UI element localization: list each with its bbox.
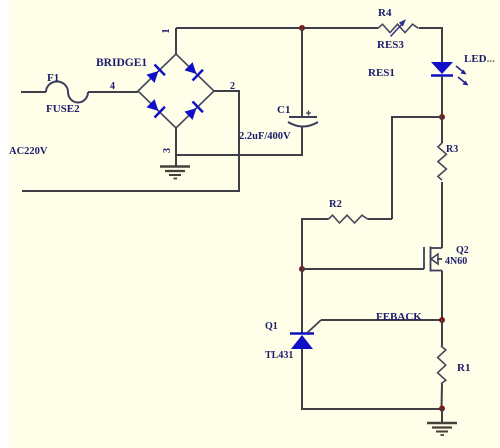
- wire AC neutral bottom rail: [22, 91, 239, 191]
- svg-text:R4: R4: [378, 7, 392, 19]
- resistor R1: [438, 346, 446, 384]
- node junction dot top rail / C1: [299, 25, 305, 31]
- bridge diode top-right: [183, 61, 203, 81]
- Q1 reference lead: [307, 320, 321, 333]
- svg-text:TL431: TL431: [265, 350, 293, 361]
- svg-text:RES1: RES1: [368, 67, 395, 79]
- wire fuse to bridge pin 4: [88, 91, 138, 93]
- svg-text:R1: R1: [457, 362, 470, 374]
- wire Q2 source down to feedback node: [441, 271, 443, 321]
- ground under bridge: [160, 167, 190, 179]
- svg-text:AC220V: AC220V: [9, 146, 48, 157]
- svg-text:1: 1: [161, 29, 172, 34]
- wire Q1 anode to bottom rail: [302, 349, 442, 409]
- capacitor C1: [288, 111, 318, 127]
- wire R2 right lead: [368, 218, 393, 220]
- bridge diode top-left: [145, 64, 165, 84]
- svg-text:C1: C1: [277, 104, 290, 116]
- node junction dot bottom rail / ground: [439, 406, 445, 412]
- wire down to ground 2: [441, 409, 443, 422]
- wire feedback node to R1: [441, 320, 443, 346]
- wire AC live input to fuse: [21, 91, 46, 93]
- fuse F1 body: [46, 82, 88, 103]
- wire R1 bottom to ground rail: [441, 384, 444, 409]
- wire C1 top branch: [301, 28, 303, 117]
- svg-text:4: 4: [110, 81, 115, 92]
- wire R4 to LED corner: [419, 28, 442, 62]
- svg-text:F1: F1: [47, 72, 59, 84]
- wire bridge pin3 to ground: [175, 128, 177, 166]
- svg-text:Q1: Q1: [265, 321, 278, 332]
- bridge diode bottom-right: [183, 101, 203, 121]
- svg-text:R2: R2: [329, 199, 342, 210]
- node junction dot LED/R3/R2 branch: [439, 114, 445, 120]
- bridge BRIDGE1 diamond outline: [138, 54, 214, 128]
- wire branch to R2: [392, 117, 442, 219]
- wire FEBACK net: [321, 319, 442, 321]
- bridge diode bottom-left: [145, 98, 165, 118]
- svg-text:BRIDGE1: BRIDGE1: [96, 57, 147, 69]
- regulator Q1 TL431: [290, 334, 314, 350]
- resistor R4 (RES3 adjustable): [378, 24, 419, 32]
- transistor Q2 N-MOSFET: [424, 247, 442, 272]
- wire gate node to Q2 gate: [302, 268, 424, 270]
- node junction dot feedback node: [439, 317, 445, 323]
- Q2 body arrow: [431, 254, 438, 264]
- wire junction down to R3: [441, 117, 443, 143]
- wire R3 to Q2 drain: [441, 182, 443, 248]
- svg-text:Q2: Q2: [456, 245, 469, 256]
- svg-text:2: 2: [230, 81, 235, 92]
- wire LED cathode down to junction: [441, 76, 443, 116]
- svg-text:LED...: LED...: [464, 53, 495, 65]
- wire gate node down to Q1 cathode: [301, 269, 303, 333]
- svg-text:RES3: RES3: [377, 39, 404, 51]
- resistor R2: [329, 215, 368, 223]
- svg-text:FEBACK: FEBACK: [376, 311, 422, 323]
- R4 wiper arrow: [391, 19, 407, 36]
- LED D? symbol: [431, 62, 469, 86]
- svg-text:FUSE2: FUSE2: [46, 103, 80, 115]
- svg-text:3: 3: [162, 148, 173, 153]
- ground bottom right: [427, 423, 457, 435]
- svg-text:R3: R3: [446, 144, 458, 155]
- wire C1 bottom to ground rail: [176, 127, 302, 155]
- svg-text:2.2uF/400V: 2.2uF/400V: [239, 131, 291, 142]
- wire top DC rail: [176, 27, 378, 29]
- resistor R3: [438, 143, 447, 180]
- wire R2 left lead down to gate node: [302, 219, 329, 269]
- svg-text:4N60: 4N60: [445, 256, 467, 267]
- node junction dot gate node: [299, 266, 305, 272]
- wire bridge pin1 to top rail: [175, 28, 177, 54]
